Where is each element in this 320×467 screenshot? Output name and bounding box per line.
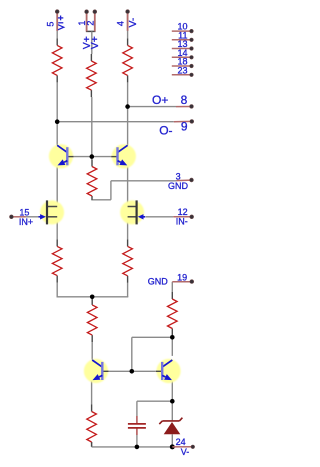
node zener-capacitor junction bbox=[170, 399, 175, 404]
wire zener to bottom rail bbox=[171, 434, 173, 447]
svg-text:GND: GND bbox=[168, 181, 189, 191]
pin 15 IN+ bbox=[10, 207, 34, 227]
svg-text:2: 2 bbox=[85, 21, 95, 26]
wire GND19 riser to R8 bbox=[171, 282, 173, 292]
pin 5 V+ bbox=[46, 10, 64, 31]
svg-text:4: 4 bbox=[115, 21, 125, 26]
wire base node to Q2 base bbox=[92, 156, 118, 158]
wire mirror node to base junction bbox=[132, 336, 173, 338]
transistor Q2 (top-right of differential mirror) bbox=[111, 144, 136, 168]
svg-text:19: 19 bbox=[177, 272, 187, 282]
svg-text:3: 3 bbox=[176, 171, 181, 181]
wire R9 bottom lead to rail bbox=[91, 442, 93, 444]
node rail-capacitor junction bbox=[135, 445, 140, 450]
svg-text:O+: O+ bbox=[152, 93, 168, 107]
svg-text:V+: V+ bbox=[89, 36, 101, 49]
resistor R9 (Q3 emitter) bbox=[87, 405, 97, 447]
svg-text:9: 9 bbox=[181, 120, 188, 134]
wire junction to Q4 base bbox=[132, 370, 161, 372]
svg-text:O-: O- bbox=[159, 124, 172, 138]
svg-text:8: 8 bbox=[181, 93, 188, 107]
pin 13 bbox=[172, 39, 194, 50]
pin 10 bbox=[172, 22, 194, 33]
node mirror top junction bbox=[170, 335, 175, 340]
wire J1 source down to R5 bbox=[56, 217, 58, 240]
svg-text:5: 5 bbox=[46, 22, 56, 27]
JFET J1 (IN+ input) bbox=[39, 200, 65, 224]
resistor R5 (J1 source) bbox=[52, 239, 62, 282]
svg-text:12: 12 bbox=[178, 207, 188, 217]
pin 18 bbox=[172, 57, 194, 68]
node base junction of top pair bbox=[90, 154, 95, 159]
capacitor C1 bbox=[128, 424, 146, 428]
svg-text:24: 24 bbox=[176, 437, 186, 447]
wire Q2 emitter to J2 drain bbox=[127, 165, 129, 206]
wire node O+ to pin 8 bbox=[128, 106, 176, 108]
node O- junction bbox=[55, 119, 60, 124]
svg-text:IN+: IN+ bbox=[19, 217, 33, 227]
wire R2 to base node bbox=[91, 97, 93, 157]
wire Q1 emitter to J1 drain bbox=[56, 165, 58, 206]
pin 3 GND bbox=[168, 171, 193, 191]
pin 12 IN- bbox=[173, 207, 193, 227]
wire node O- to pin 9 bbox=[57, 121, 174, 123]
wire R3 to node O+ bbox=[127, 82, 129, 106]
pin 24 V- bbox=[172, 437, 194, 457]
pin 2 V+ bbox=[85, 10, 101, 49]
pin 19 GND bbox=[148, 272, 194, 286]
wire zener node to capacitor top bbox=[137, 400, 172, 402]
pin 4 V- bbox=[115, 10, 138, 31]
node mirror base junction bbox=[130, 369, 135, 374]
wire pins1-2 join bbox=[86, 30, 96, 32]
svg-text:V-: V- bbox=[127, 17, 139, 27]
resistor R6 (tail to Q3) bbox=[87, 298, 97, 342]
pin 8 O+ bbox=[152, 93, 193, 108]
wire R8 to mirror node bbox=[171, 336, 173, 338]
JFET J2 (IN- input) bbox=[120, 200, 145, 224]
wire base node to R4 bbox=[91, 157, 93, 160]
node O+ junction bbox=[125, 104, 130, 109]
wire base node to Q1 base bbox=[67, 156, 92, 158]
resistor R2 (V+ pins1-2 branch) bbox=[87, 54, 97, 97]
wire tail to R7 corner bbox=[92, 296, 128, 298]
resistor R3 (V- pin4 branch) bbox=[123, 38, 133, 82]
pin 1 V+ bbox=[77, 10, 93, 49]
svg-text:V-: V- bbox=[181, 447, 190, 457]
wire bottom rail bbox=[92, 446, 173, 448]
wire Q3 emitter to R9 bbox=[91, 380, 93, 404]
wire R1 to node O- bbox=[56, 82, 58, 121]
wire J1 gate from pin 15 bbox=[26, 216, 40, 218]
transistor Q1 (top-left of differential mirror) bbox=[49, 144, 74, 168]
resistor R4 (base node to GND3) bbox=[87, 160, 97, 200]
wire V- pin4 lead bbox=[127, 14, 129, 38]
wire capacitor top lead bbox=[136, 416, 138, 424]
node tail junction bbox=[90, 295, 95, 300]
wire Q4 emitter to zener node bbox=[171, 381, 173, 402]
wire zener node to zener bbox=[171, 401, 173, 420]
svg-text:IN-: IN- bbox=[176, 217, 188, 227]
wire node O- down to Q1 collector bbox=[56, 122, 58, 146]
wire mirror node to Q4 collector bbox=[171, 337, 173, 356]
svg-text:15: 15 bbox=[19, 207, 29, 217]
svg-text:GND: GND bbox=[148, 276, 169, 286]
transistor Q4 (bottom-right current mirror) bbox=[156, 359, 181, 383]
svg-text:23: 23 bbox=[177, 65, 187, 75]
wire R5 to tail corner bbox=[56, 283, 58, 297]
pin 23 bbox=[172, 65, 194, 76]
node rail-zener junction bbox=[170, 444, 175, 449]
wire capacitor bottom lead bbox=[136, 428, 138, 435]
transistor Q3 (bottom-left current mirror) bbox=[84, 359, 109, 383]
wire node O+ down to Q2 collector bbox=[127, 107, 129, 146]
zener diode D1 bbox=[159, 418, 182, 435]
pin 11 bbox=[172, 30, 194, 41]
wire R4 elbow to GND3 riser bbox=[91, 199, 111, 201]
wire GND3 run bbox=[111, 180, 177, 182]
pin 9 O- bbox=[159, 120, 194, 138]
wire Q3 base to junction bbox=[104, 370, 132, 372]
resistor R7 (J2 source) bbox=[123, 239, 133, 282]
wire R6 to Q3 collector bbox=[91, 342, 93, 360]
wire J2 source down to R7 bbox=[127, 217, 129, 240]
resistor R8 (GND19 branch) bbox=[168, 292, 178, 336]
wire J2 gate from pin 12 bbox=[145, 216, 173, 218]
resistor R1 (V+ pin5 branch) bbox=[52, 38, 62, 82]
wire V+ pin5 lead bbox=[56, 14, 58, 38]
pin 14 bbox=[172, 48, 194, 59]
wire tail node to R6 bbox=[91, 297, 93, 298]
